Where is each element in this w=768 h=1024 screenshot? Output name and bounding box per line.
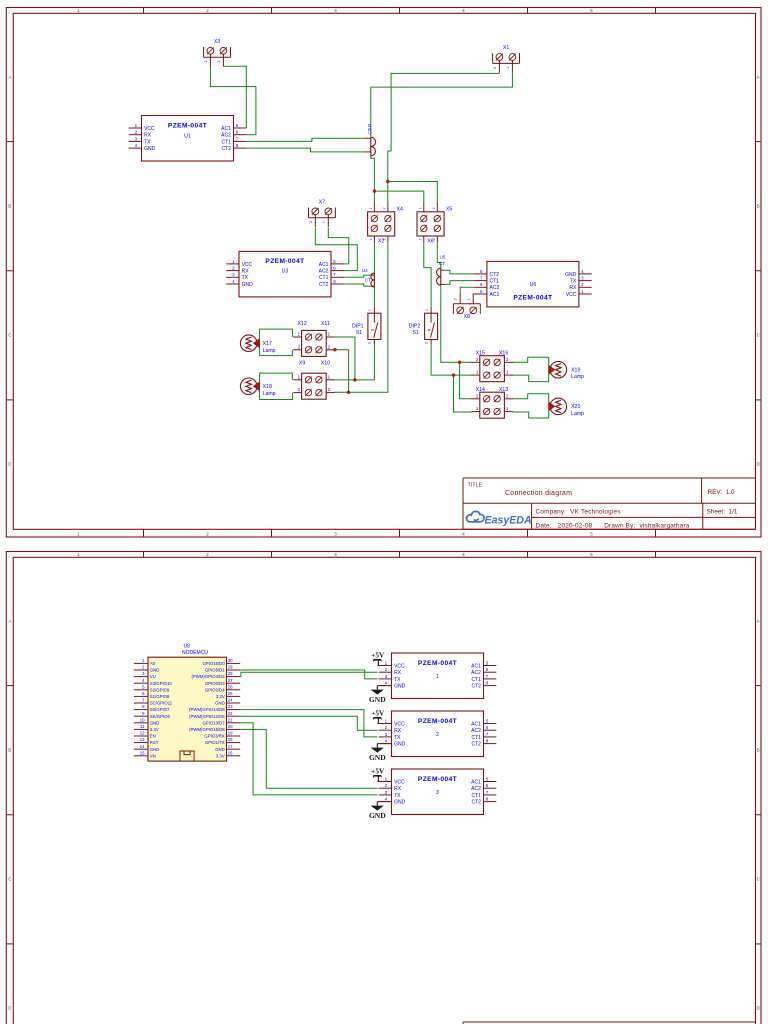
power +5V PZEM3	[377, 781, 391, 783]
svg-text:X16: X16	[499, 350, 508, 356]
svg-text:GND: GND	[394, 800, 406, 806]
svg-text:DIP2: DIP2	[409, 323, 421, 329]
terminal X7	[309, 199, 336, 227]
svg-text:GND: GND	[144, 146, 156, 152]
svg-text:1: 1	[204, 61, 208, 63]
wire X3 pin1 to U1 AC2	[210, 66, 256, 135]
svg-text:27: 27	[228, 678, 233, 683]
module U3 PZEM-004T	[226, 251, 344, 297]
terminal block X14 X13	[471, 387, 512, 418]
svg-text:AC1: AC1	[221, 126, 231, 132]
svg-text:AC2: AC2	[490, 285, 500, 291]
svg-text:S2/GPIO9: S2/GPIO9	[150, 687, 170, 692]
svg-text:PZEM-004T: PZEM-004T	[418, 718, 457, 725]
svg-text:GPIO1/TX: GPIO1/TX	[205, 740, 225, 745]
svg-text:A: A	[8, 75, 11, 80]
svg-text:TX: TX	[144, 139, 151, 145]
svg-text:RST: RST	[150, 740, 159, 745]
module U1 PZEM-004T	[129, 116, 247, 162]
svg-text:1: 1	[322, 221, 326, 223]
wire lamp X19 loop to X16	[512, 357, 549, 381]
svg-text:GND: GND	[150, 668, 160, 673]
switch DIP2 S1	[409, 307, 438, 345]
svg-text:AC2: AC2	[471, 786, 481, 792]
svg-text:D: D	[8, 1006, 11, 1011]
svg-text:CT2: CT2	[471, 742, 481, 748]
svg-text:RX: RX	[394, 670, 402, 676]
junction X10 pin2 branch	[347, 391, 350, 394]
svg-text:C: C	[757, 333, 760, 338]
wire U8 pin29 to PZEM1 TX	[240, 670, 377, 679]
svg-text:SC/GPIO11: SC/GPIO11	[150, 701, 173, 706]
wire U3 CT2 to U4 secondary	[343, 284, 372, 286]
module U8 NODEMCU	[134, 643, 240, 761]
wire X2 pin1 through U4 to DIP1	[373, 243, 375, 307]
svg-text:CT1: CT1	[471, 793, 481, 799]
svg-text:X17: X17	[263, 341, 272, 347]
svg-text:GND: GND	[565, 272, 577, 278]
svg-text:TX: TX	[394, 735, 401, 741]
module U6 PZEM-004T	[474, 261, 592, 307]
svg-text:CT1: CT1	[471, 677, 481, 683]
svg-text:EasyEDA: EasyEDA	[485, 514, 532, 526]
svg-text:CT: CT	[439, 261, 445, 266]
svg-text:U5: U5	[439, 255, 445, 260]
junction X5 pin2 branch	[386, 180, 389, 183]
wire U8 pin23 to PZEM2 TX	[240, 710, 377, 737]
svg-text:Connection diagram: Connection diagram	[505, 490, 572, 497]
wire U1 CT2 to U2 secondary	[246, 148, 364, 152]
svg-text:(PWM)GPIO14/D5: (PWM)GPIO14/D5	[189, 707, 225, 712]
svg-text:B: B	[8, 748, 11, 753]
svg-text:+5V: +5V	[371, 709, 385, 718]
svg-text:2: 2	[383, 207, 387, 209]
wire X8 pin1 to U6 AC1	[472, 293, 475, 295]
svg-text:X13: X13	[499, 387, 508, 393]
wire U5 secondary to U6 CT2	[445, 270, 475, 274]
wire branch to X5 pin2	[388, 182, 438, 204]
terminal X1	[493, 45, 520, 73]
junction X15 pin1 branch	[452, 373, 455, 376]
wire U3 CT1 to U4 secondary	[343, 275, 372, 277]
wire DIP1 bottom to X10 X11 pin1 net	[334, 337, 374, 380]
wire branch to X5 pin1	[374, 191, 423, 203]
svg-text:RX: RX	[242, 269, 250, 275]
svg-text:C: C	[8, 877, 11, 882]
junction X5 pin1 branch	[373, 189, 376, 192]
svg-text:19: 19	[228, 731, 233, 736]
terminal block X4 X2	[368, 203, 403, 245]
svg-text:12: 12	[140, 731, 145, 736]
svg-text:1: 1	[369, 207, 373, 209]
junction X11 pin2 stub	[333, 348, 336, 351]
svg-text:CT: CT	[365, 278, 371, 283]
svg-text:3: 3	[436, 790, 439, 796]
wire DIP2 bottom to X15 X14 pin1 net	[431, 345, 472, 412]
ground GND PZEM3	[377, 801, 391, 803]
svg-text:A0: A0	[150, 661, 156, 666]
svg-text:28: 28	[228, 671, 233, 676]
lamp X19	[549, 361, 585, 380]
svg-text:VU: VU	[150, 674, 156, 679]
terminal block X5 X6	[417, 203, 452, 245]
svg-text:(PWM)GPIO15/D8: (PWM)GPIO15/D8	[189, 727, 225, 732]
svg-text:PZEM-004T: PZEM-004T	[265, 258, 304, 265]
svg-text:S1: S1	[413, 330, 419, 336]
svg-text:RX: RX	[144, 133, 152, 139]
current transformer U4	[362, 268, 375, 287]
svg-text:AC2: AC2	[319, 269, 329, 275]
wire X8 pin2 to U6 AC2	[460, 287, 474, 293]
svg-text:A: A	[757, 619, 760, 624]
svg-text:CT: CT	[368, 128, 373, 134]
svg-text:CT2: CT2	[471, 800, 481, 806]
svg-text:S0/GPIO7: S0/GPIO7	[150, 707, 170, 712]
svg-text:1: 1	[418, 207, 422, 209]
svg-text:U2: U2	[367, 123, 372, 129]
svg-text:X15: X15	[476, 350, 485, 356]
svg-text:(PWM)GPIO4/D2: (PWM)GPIO4/D2	[192, 674, 226, 679]
svg-text:1: 1	[467, 298, 471, 300]
svg-text:CT1: CT1	[471, 735, 481, 741]
svg-text:PZEM-004T: PZEM-004T	[418, 660, 457, 667]
svg-text:GND: GND	[150, 747, 160, 752]
svg-text:C: C	[8, 333, 11, 338]
svg-text:X11: X11	[321, 321, 330, 327]
svg-text:Vin: Vin	[150, 753, 157, 758]
title block page 2	[463, 1022, 756, 1024]
wire X6 pin1 to DIP2	[424, 243, 431, 307]
svg-text:GND: GND	[215, 701, 225, 706]
svg-text:PZEM-004T: PZEM-004T	[513, 295, 552, 302]
svg-text:B: B	[757, 204, 760, 209]
wire X7 pin1 to U3 AC2	[315, 228, 357, 271]
svg-text:VCC: VCC	[566, 292, 577, 298]
svg-text:AC2: AC2	[221, 133, 231, 139]
wire X7 pin2 to U3 AC1	[328, 228, 349, 264]
svg-text:(PWM)GPIO12/D6: (PWM)GPIO12/D6	[189, 714, 225, 719]
wire U1 CT1 to U2 secondary	[246, 138, 364, 141]
wire U5 secondary to U6 CT1	[445, 281, 475, 285]
lamp X20	[549, 398, 585, 417]
svg-text:X14: X14	[476, 387, 485, 393]
svg-text:X5: X5	[446, 207, 452, 213]
svg-text:GND: GND	[369, 753, 386, 762]
svg-text:U6: U6	[530, 282, 537, 288]
svg-text:10: 10	[140, 717, 145, 722]
svg-text:RX: RX	[394, 786, 402, 792]
svg-text:TITLE:: TITLE:	[468, 483, 484, 489]
svg-text:2: 2	[309, 221, 313, 223]
svg-text:1: 1	[369, 239, 373, 241]
wire X2 pin2 to X10 X11 pin2 net	[334, 243, 388, 392]
svg-text:AC1: AC1	[490, 292, 500, 298]
wire U2 primary to X4 left	[371, 156, 375, 203]
svg-text:Lamp: Lamp	[263, 348, 276, 354]
svg-text:REV: 1.0: REV: 1.0	[708, 489, 736, 496]
svg-text:CT2: CT2	[319, 282, 329, 288]
svg-text:VCC: VCC	[144, 126, 155, 132]
svg-text:X7: X7	[319, 199, 325, 205]
svg-text:S1/GPIO8: S1/GPIO8	[150, 694, 170, 699]
svg-text:U8: U8	[184, 643, 191, 649]
wire X3 pin2 to U1 AC1	[223, 66, 246, 128]
svg-text:X1: X1	[503, 45, 509, 51]
svg-text:EN: EN	[150, 734, 156, 739]
svg-text:AC1: AC1	[471, 779, 481, 785]
power +5V PZEM2	[377, 723, 391, 725]
svg-text:2: 2	[493, 67, 497, 69]
wire lamp X20 loop to X13	[512, 394, 549, 418]
svg-text:AC1: AC1	[319, 262, 329, 268]
svg-text:X3: X3	[214, 39, 220, 45]
terminal X3	[204, 39, 231, 67]
svg-text:1: 1	[368, 309, 372, 311]
switch DIP1 S1	[352, 307, 381, 345]
svg-text:2: 2	[424, 342, 428, 344]
svg-text:CT1: CT1	[221, 139, 231, 145]
svg-text:GPIO3/RX: GPIO3/RX	[204, 734, 224, 739]
svg-text:GND: GND	[394, 742, 406, 748]
svg-text:D: D	[757, 462, 760, 467]
svg-text:+5V: +5V	[371, 651, 385, 660]
svg-text:2: 2	[432, 207, 436, 209]
svg-text:CT2: CT2	[471, 684, 481, 690]
junction X11 pin1 branch	[353, 378, 356, 381]
svg-text:22: 22	[228, 711, 233, 716]
svg-text:X4: X4	[397, 207, 403, 213]
wire lamp X17 loop to X12	[260, 329, 293, 356]
svg-text:X18: X18	[263, 384, 272, 390]
svg-text:Date: 2020-02-08 Drawn: Date: 2020-02-08 Drawn By: vishalkargath…	[536, 523, 690, 530]
svg-text:GND: GND	[369, 811, 386, 820]
terminal X8	[453, 294, 480, 320]
svg-text:X10: X10	[321, 361, 330, 367]
svg-text:TX: TX	[570, 279, 577, 285]
svg-text:1: 1	[506, 67, 510, 69]
svg-text:U4: U4	[362, 268, 368, 273]
svg-text:GND: GND	[215, 747, 225, 752]
svg-text:GPIO5/D1: GPIO5/D1	[205, 668, 225, 673]
svg-text:U3: U3	[282, 268, 289, 274]
svg-text:GPIO16/D0: GPIO16/D0	[202, 661, 225, 666]
svg-text:AC2: AC2	[471, 728, 481, 734]
svg-text:DIP1: DIP1	[352, 323, 364, 329]
svg-text:23: 23	[228, 704, 233, 709]
wire U8 pin28 to PZEM1 RX	[240, 672, 377, 676]
svg-text:U1: U1	[184, 134, 191, 140]
wire U8 pin21 to PZEM3 TX	[240, 723, 377, 795]
svg-text:D: D	[8, 462, 11, 467]
svg-text:A: A	[8, 619, 11, 624]
svg-text:SK/GPIO6: SK/GPIO6	[150, 714, 171, 719]
svg-text:11: 11	[140, 724, 145, 729]
svg-text:2: 2	[217, 61, 221, 63]
module PZEM-004T 1	[379, 653, 497, 699]
svg-text:X20: X20	[571, 404, 580, 410]
svg-text:B: B	[757, 748, 760, 753]
svg-text:A: A	[757, 75, 760, 80]
svg-text:CT2: CT2	[490, 272, 500, 278]
svg-text:AC1: AC1	[471, 721, 481, 727]
svg-text:GND: GND	[242, 282, 254, 288]
svg-text:B: B	[8, 204, 11, 209]
svg-text:GPIO13/D7: GPIO13/D7	[202, 720, 225, 725]
svg-text:Company: VK Technologies: Company: VK Technologies	[536, 508, 621, 515]
svg-text:X8: X8	[464, 314, 470, 320]
EasyEDA logo	[466, 511, 531, 526]
svg-text:PZEM-004T: PZEM-004T	[418, 776, 457, 783]
svg-text:VCC: VCC	[394, 663, 405, 669]
svg-text:S3/GPIO10: S3/GPIO10	[150, 681, 173, 686]
terminal block X9 X10	[293, 361, 334, 400]
svg-text:PZEM-004T: PZEM-004T	[168, 122, 207, 129]
svg-text:Lamp: Lamp	[571, 374, 584, 380]
svg-text:3.3V: 3.3V	[216, 694, 225, 699]
svg-text:24: 24	[228, 698, 233, 703]
svg-text:X12: X12	[297, 321, 306, 327]
svg-text:2: 2	[432, 239, 436, 241]
svg-text:TX: TX	[394, 677, 401, 683]
wire U8 pin20 to PZEM3 RX	[240, 729, 377, 788]
svg-text:20: 20	[228, 724, 233, 729]
svg-text:25: 25	[228, 691, 233, 696]
wire X1 pin2 to U2 primary	[371, 73, 513, 137]
svg-text:S1: S1	[356, 330, 362, 336]
svg-text:RX: RX	[569, 285, 577, 291]
svg-text:AC1: AC1	[471, 663, 481, 669]
module PZEM-004T 3	[379, 769, 497, 815]
svg-text:X9: X9	[299, 361, 305, 367]
svg-text:Lamp: Lamp	[263, 391, 276, 397]
svg-text:+5V: +5V	[371, 767, 385, 776]
svg-text:GND: GND	[394, 684, 406, 690]
svg-text:2: 2	[454, 298, 458, 300]
svg-text:NODEMCU: NODEMCU	[182, 650, 208, 656]
svg-text:GPIO0/D3: GPIO0/D3	[205, 681, 225, 686]
junction X15 pin2 branch	[458, 361, 461, 364]
module PZEM-004T 2	[379, 711, 497, 757]
svg-text:CT1: CT1	[490, 279, 500, 285]
svg-text:X19: X19	[571, 367, 580, 373]
svg-text:TX: TX	[242, 275, 249, 281]
wire U8 pin22 to PZEM2 RX	[240, 716, 377, 730]
svg-text:CT1: CT1	[319, 275, 329, 281]
svg-text:Lamp: Lamp	[571, 411, 584, 417]
svg-text:2: 2	[436, 732, 439, 738]
svg-text:30: 30	[228, 658, 233, 663]
power +5V PZEM1	[377, 665, 391, 667]
svg-text:1: 1	[418, 239, 422, 241]
svg-text:1: 1	[436, 674, 439, 680]
svg-text:GPIO2/D4: GPIO2/D4	[205, 687, 225, 692]
wire lamp X18 loop to X9	[260, 373, 293, 399]
svg-text:RX: RX	[394, 728, 402, 734]
svg-text:15: 15	[140, 750, 145, 755]
svg-text:3.3V: 3.3V	[216, 753, 225, 758]
svg-text:AC2: AC2	[471, 670, 481, 676]
lamp X18	[240, 378, 275, 397]
svg-text:D: D	[757, 1006, 760, 1011]
wire X1 pin1 to X4 X5 top	[388, 73, 500, 203]
title block	[463, 478, 756, 530]
svg-text:VCC: VCC	[394, 721, 405, 727]
svg-text:1: 1	[424, 309, 428, 311]
svg-text:17: 17	[228, 744, 233, 749]
svg-text:VCC: VCC	[394, 779, 405, 785]
svg-text:TX: TX	[394, 793, 401, 799]
svg-text:26: 26	[228, 684, 233, 689]
current transformer U5	[437, 255, 446, 286]
ground GND PZEM2	[377, 743, 391, 745]
svg-text:14: 14	[140, 744, 145, 749]
svg-text:3.3V: 3.3V	[150, 727, 159, 732]
svg-text:2: 2	[383, 239, 387, 241]
svg-text:21: 21	[228, 717, 233, 722]
svg-text:VCC: VCC	[242, 262, 253, 268]
svg-text:C: C	[757, 877, 760, 882]
svg-text:13: 13	[140, 737, 145, 742]
lamp X17	[240, 335, 275, 354]
svg-text:GND: GND	[150, 720, 160, 725]
ground GND PZEM1	[377, 685, 391, 687]
terminal block X12 X11	[293, 321, 334, 356]
svg-text:CT2: CT2	[221, 146, 231, 152]
svg-text:18: 18	[228, 737, 233, 742]
svg-text:GND: GND	[369, 695, 386, 704]
svg-text:Sheet: 1/1: Sheet: 1/1	[707, 509, 738, 516]
wire X6 pin2 through U5 to X15 X14 pin2 net	[437, 243, 472, 399]
svg-text:16: 16	[228, 750, 233, 755]
svg-text:29: 29	[228, 665, 233, 670]
current transformer U2	[367, 123, 375, 156]
svg-text:2: 2	[368, 342, 372, 344]
terminal block X15 X16	[471, 350, 512, 381]
